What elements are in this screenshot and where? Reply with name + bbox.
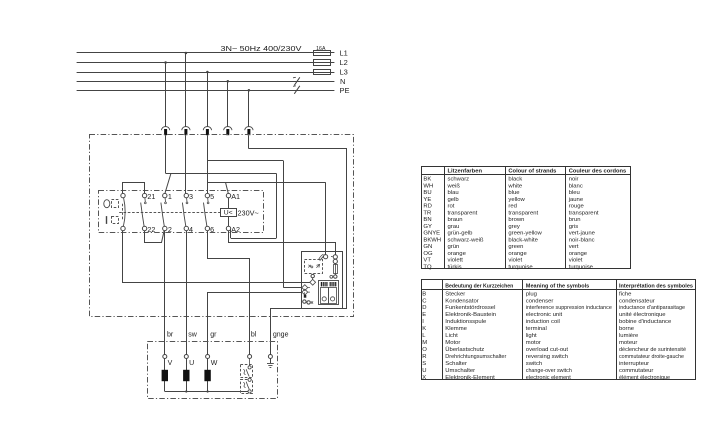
terminal connector block [319, 281, 339, 305]
svg-text:white: white [507, 183, 522, 189]
wire L1 entry to contact 3 [185, 135, 187, 193]
svg-text:brown: brown [508, 217, 524, 223]
svg-text:RD: RD [423, 204, 432, 210]
table colour-of-strands frame [422, 167, 631, 269]
svg-text:Licht: Licht [445, 333, 458, 339]
svg-text:turquoise: turquoise [569, 264, 594, 270]
wire PE bottom left [270, 308, 347, 310]
svg-text:switch: switch [526, 361, 542, 367]
svg-text:jaune: jaune [568, 197, 584, 203]
contact main switch (O/I) terminals [121, 193, 125, 197]
svg-text:U<: U< [224, 210, 233, 217]
svg-text:noir-blanc: noir-blanc [569, 237, 595, 243]
svg-text:transparent: transparent [569, 210, 599, 216]
contact terminal 21 [142, 193, 146, 197]
svg-text:commutateur: commutateur [619, 368, 653, 374]
svg-text:VT: VT [423, 258, 431, 264]
svg-text:W: W [211, 360, 218, 367]
mechanical link vertical (dashed) [122, 204, 124, 220]
svg-text:commutateur droite-gauche: commutateur droite-gauche [619, 354, 685, 360]
fuse F2 on L2 [314, 60, 331, 66]
wire line L2 [77, 62, 335, 64]
svg-text:induction coil: induction coil [526, 319, 560, 325]
node tap PE [248, 89, 251, 92]
wire contact4 to motor U (sw) [186, 231, 188, 355]
connector X4 [224, 127, 232, 131]
svg-text:gr: gr [210, 332, 217, 339]
motor terminal 2 [184, 355, 188, 359]
svg-text:plug: plug [526, 291, 537, 297]
motor winding W [204, 370, 210, 381]
wire contact2 to motor V (br) [164, 231, 166, 355]
ground symbol [270, 359, 272, 364]
wire plug C to motor W (gr) [208, 293, 303, 355]
svg-text:PE: PE [340, 86, 350, 95]
suppressor internal symbol 2 [316, 264, 319, 267]
svg-text:interrupteur: interrupteur [619, 361, 649, 367]
motor terminal 4 [248, 355, 252, 359]
svg-text:bobine d'inductance: bobine d'inductance [619, 319, 672, 325]
contact blade 21-22 [144, 198, 146, 202]
svg-text:green: green [508, 244, 523, 250]
svg-text:1: 1 [168, 192, 172, 201]
svg-text:OG: OG [423, 251, 433, 257]
wire L2 entry down [165, 135, 167, 173]
svg-text:B: B [422, 291, 426, 297]
svg-text:N: N [340, 77, 345, 86]
svg-text:BKWH: BKWH [423, 237, 441, 243]
contact blade 1-2 [164, 198, 166, 202]
fuse F1 on L1 [314, 51, 331, 56]
svg-text:violet: violet [508, 258, 522, 264]
suppressor connector mark [319, 254, 325, 261]
svg-text:light: light [526, 333, 537, 339]
button I [106, 216, 108, 224]
mechanical link (dashed) [119, 212, 221, 214]
wire tap PE down [248, 90, 250, 127]
svg-text:fiche: fiche [619, 291, 632, 297]
wire bottom of A2 loop [231, 238, 276, 240]
wire bridge mech to 21 [123, 183, 145, 194]
svg-text:Couleur des cordons: Couleur des cordons [569, 169, 627, 175]
svg-text:reversing switch: reversing switch [526, 354, 568, 360]
motor terminal 1 [163, 355, 167, 359]
svg-text:violett: violett [448, 258, 464, 264]
svg-text:black-white: black-white [508, 237, 538, 243]
svg-text:Meaning of the symbols: Meaning of the symbols [526, 283, 590, 289]
wire V2 down to suppressor [283, 161, 285, 288]
switch S1 boundary (dash-dot) [99, 191, 264, 233]
svg-text:schwarz-weiß: schwarz-weiß [448, 237, 484, 243]
svg-text:U: U [422, 368, 426, 374]
wire line N [77, 81, 335, 83]
svg-text:türkis: türkis [448, 264, 462, 270]
suppressor terminal 2 lower [333, 259, 337, 263]
wire drop to A1 [226, 182, 229, 193]
svg-text:grau: grau [448, 224, 460, 230]
node tap L2 [164, 61, 167, 64]
undervoltage coil U1 wire A1-A2 [228, 198, 230, 208]
wire L3 entry to contact 5 [207, 135, 209, 193]
svg-text:élément électronique: élément électronique [619, 375, 671, 381]
svg-text:BK: BK [423, 177, 431, 183]
connector socket left [321, 288, 329, 304]
svg-text:GNYE: GNYE [423, 231, 440, 237]
plug B diamond [302, 285, 308, 291]
connector comb left [321, 282, 322, 286]
svg-text:schwarz: schwarz [448, 177, 470, 183]
suppressor fuse lower terminal [334, 275, 337, 278]
svg-text:vert: vert [569, 244, 579, 250]
contact terminal 4 [184, 226, 188, 230]
svg-text:Drehrichtungsumschalter: Drehrichtungsumschalter [445, 354, 506, 360]
svg-text:Kondensator: Kondensator [445, 298, 478, 304]
motor terminal 3 [206, 355, 210, 359]
fuse F3 on L3 [314, 70, 331, 75]
wire tap N down [227, 81, 229, 127]
svg-text:R: R [422, 354, 426, 360]
break mark on N [294, 77, 300, 85]
svg-text:déclencheur de surintensité: déclencheur de surintensité [619, 347, 687, 353]
svg-text:violet: violet [569, 258, 583, 264]
svg-text:grün-gelb: grün-gelb [448, 231, 474, 237]
svg-text:YE: YE [423, 197, 431, 203]
undervoltage release box U< [221, 209, 237, 217]
svg-text:Elektronik-Element: Elektronik-Element [445, 375, 495, 381]
svg-text:brun: brun [569, 217, 581, 223]
node star U [185, 390, 187, 392]
svg-text:Colour of strands: Colour of strands [508, 169, 557, 175]
svg-text:U: U [189, 360, 194, 367]
wire winding W lead [207, 359, 209, 392]
suppressor internal symbol 1 [308, 265, 311, 268]
contact blade 3-4 [186, 198, 188, 202]
svg-text:Interprétation des symboles: Interprétation des symboles [619, 283, 694, 289]
wire winding V lead [164, 359, 166, 392]
svg-text:Elektronik-Baustein: Elektronik-Baustein [445, 312, 496, 318]
svg-text:green-yellow: green-yellow [508, 231, 542, 237]
contact terminal A1 [226, 193, 230, 197]
svg-text:3N~ 50Hz 400/230V: 3N~ 50Hz 400/230V [221, 46, 303, 53]
svg-text:4: 4 [189, 225, 193, 234]
thermal cutout O1 contact [249, 359, 251, 366]
button O [104, 200, 110, 208]
connector X3 [203, 127, 211, 131]
svg-text:electronic element: electronic element [526, 375, 571, 381]
svg-text:Klemme: Klemme [445, 326, 467, 332]
svg-text:condensateur: condensateur [619, 298, 655, 304]
button I actuator (dashed) [112, 217, 119, 224]
wire line PE [77, 90, 335, 92]
svg-text:BN: BN [423, 217, 431, 223]
svg-text:O: O [422, 347, 427, 353]
contact blade 5-6 [207, 198, 209, 202]
svg-text:red: red [508, 204, 517, 210]
svg-text:K: K [422, 326, 426, 332]
svg-text:Litzenfarben: Litzenfarben [448, 169, 483, 175]
svg-text:S: S [422, 361, 426, 367]
connector comb right [330, 282, 331, 286]
svg-text:D: D [422, 305, 426, 311]
svg-text:grün: grün [448, 244, 460, 250]
svg-text:GY: GY [423, 224, 432, 230]
wire bridge contact5 to A1 and on to suppressor [208, 183, 326, 194]
thermal cutout O2 box (dashed) [241, 380, 253, 394]
svg-text:L3: L3 [340, 68, 348, 77]
svg-text:Funkentstördrossel: Funkentstördrossel [445, 305, 495, 311]
wire PE entry down [248, 135, 250, 149]
svg-text:5: 5 [210, 192, 214, 201]
svg-text:inductance d'antiparasitage: inductance d'antiparasitage [619, 305, 686, 311]
table symbol-meanings frame [422, 280, 696, 380]
svg-text:br: br [167, 332, 174, 339]
motor terminal 5 [268, 355, 272, 359]
svg-text:unité électronique: unité électronique [619, 312, 666, 318]
svg-text:21: 21 [147, 192, 155, 201]
enclosure boundary (dash-dot) [90, 135, 354, 317]
svg-text:X: X [422, 375, 426, 381]
contact main switch blade [123, 198, 125, 226]
svg-text:grey: grey [508, 224, 520, 230]
svg-text:transparent: transparent [448, 210, 478, 216]
suppressor fuse [335, 264, 337, 276]
svg-text:6: 6 [210, 225, 214, 234]
svg-text:orange: orange [569, 251, 588, 257]
wire H1 contact1-top to V1 [166, 173, 277, 175]
wire jumper 22 to 2 [145, 230, 165, 242]
svg-text:rot: rot [448, 204, 455, 210]
plug A diamond [310, 279, 316, 285]
suppressor internal dashed box [305, 260, 323, 274]
svg-text:transparent: transparent [508, 210, 538, 216]
svg-text:weiß: weiß [447, 183, 461, 189]
svg-text:moteur: moteur [619, 340, 637, 346]
svg-text:yellow: yellow [508, 197, 525, 203]
wire V3 to suppressor terminal 1 [325, 182, 327, 254]
svg-text:Umschalter: Umschalter [445, 368, 475, 374]
svg-text:L1: L1 [340, 49, 348, 58]
wire winding U lead [186, 359, 188, 392]
plug C diamond [302, 289, 308, 295]
svg-text:gelb: gelb [448, 197, 460, 203]
wire tap L3 down [207, 72, 209, 127]
wire line L3 [77, 72, 335, 74]
suppressor terminal 1 [324, 255, 328, 259]
button O actuator (dashed) [112, 200, 119, 208]
svg-text:blanc: blanc [569, 183, 583, 189]
svg-text:terminal: terminal [526, 326, 547, 332]
wire A2 to suppressor terminal 2 [229, 231, 336, 255]
svg-text:motor: motor [526, 340, 541, 346]
svg-text:vert-jaune: vert-jaune [569, 231, 596, 237]
svg-text:E: E [422, 312, 426, 318]
svg-text:3: 3 [189, 192, 193, 201]
motor M1 boundary (dash-dot) [148, 342, 278, 399]
svg-text:A2: A2 [231, 225, 240, 234]
svg-text:Bedeutung der Kurzzeichen: Bedeutung der Kurzzeichen [445, 283, 513, 289]
node tap N [227, 80, 230, 83]
wire contact6 to thermal contact (bl) [208, 231, 250, 355]
svg-text:lumière: lumière [619, 333, 639, 339]
contact terminal 22 [142, 226, 146, 230]
svg-text:C: C [422, 298, 427, 304]
thermal cutout O2 contact [248, 378, 251, 381]
svg-text:L2: L2 [340, 58, 348, 67]
svg-text:blau: blau [448, 190, 459, 196]
contact terminal 6 [205, 226, 209, 230]
wire V4 PE down [346, 149, 348, 308]
svg-text:orange: orange [508, 251, 527, 257]
connector X2 [182, 127, 190, 131]
svg-text:turquoise: turquoise [508, 264, 533, 270]
svg-text:TQ: TQ [423, 264, 432, 270]
motor winding U [183, 370, 189, 381]
svg-text:bl: bl [251, 332, 257, 339]
svg-text:black: black [508, 177, 522, 183]
contact terminal A2 [226, 226, 230, 230]
svg-text:GN: GN [423, 244, 432, 250]
svg-text:Überlastschutz: Überlastschutz [445, 346, 484, 353]
wire diagonal feed to contact 1 [165, 174, 171, 194]
wire H2 L3 branch [207, 160, 283, 162]
svg-text:Induktionsspule: Induktionsspule [445, 319, 487, 325]
svg-text:rouge: rouge [569, 204, 585, 210]
svg-text:blue: blue [508, 190, 520, 196]
wire V2 into plug B [283, 287, 302, 289]
svg-text:A1: A1 [231, 192, 240, 201]
wire star point bus [165, 391, 250, 393]
plug A terminal circle [311, 274, 314, 277]
suppressor terminal 2 upper [333, 255, 337, 259]
svg-text:electronic unit: electronic unit [526, 312, 563, 318]
svg-text:Schalter: Schalter [445, 361, 467, 367]
wire V1 down right of coil [276, 173, 278, 238]
contact terminal 5 [205, 193, 209, 197]
svg-text:change-over switch: change-over switch [526, 368, 572, 374]
svg-text:bleu: bleu [569, 190, 580, 196]
node tap L3 [206, 71, 209, 74]
svg-text:orange: orange [448, 251, 467, 257]
node star W [207, 390, 209, 392]
svg-text:noir: noir [569, 177, 579, 183]
svg-text:overload cut-out: overload cut-out [526, 347, 569, 353]
wire tap L2 down [165, 63, 167, 127]
motor winding V [162, 370, 168, 381]
connector X5 [245, 127, 253, 131]
svg-text:230V~: 230V~ [238, 209, 259, 218]
suppressor small element [304, 295, 307, 298]
svg-text:condenser: condenser [526, 298, 554, 304]
svg-text:Motor: Motor [445, 340, 460, 346]
wire tap L1 down [185, 53, 187, 127]
svg-text:sw: sw [188, 332, 198, 339]
wire H4 PE branch [249, 148, 347, 150]
wire up to A2 [230, 230, 232, 239]
svg-text:Stecker: Stecker [445, 291, 465, 297]
contact terminal 1 [163, 193, 167, 197]
contact terminal 2 [163, 226, 167, 230]
wire PE to gnge [270, 308, 272, 355]
svg-text:gris: gris [569, 224, 579, 230]
thermal cutout O1 box (dashed) [241, 365, 253, 378]
connector socket right [329, 288, 337, 304]
svg-text:borne: borne [619, 326, 635, 332]
svg-text:gnge: gnge [273, 332, 289, 339]
svg-text:22: 22 [147, 225, 155, 234]
wire mech bottom to plug A [123, 231, 311, 283]
svg-text:TR: TR [423, 210, 431, 216]
suppressor lower terminals [303, 300, 306, 303]
connector X1 [161, 127, 169, 131]
svg-text:16A: 16A [316, 46, 326, 52]
svg-text:2: 2 [168, 225, 172, 234]
electronic suppressor unit E1 box [302, 252, 343, 309]
break mark on PE [294, 86, 300, 94]
node tap L1 [185, 52, 188, 55]
svg-text:braun: braun [448, 217, 463, 223]
svg-text:WH: WH [423, 183, 433, 189]
svg-text:V: V [168, 360, 173, 367]
contact terminal 3 [184, 193, 188, 197]
svg-text:M: M [422, 340, 427, 346]
svg-text:BU: BU [423, 190, 431, 196]
wire line L1 [77, 52, 335, 54]
svg-text:interference suppression induc: interference suppression inductance [526, 305, 613, 311]
